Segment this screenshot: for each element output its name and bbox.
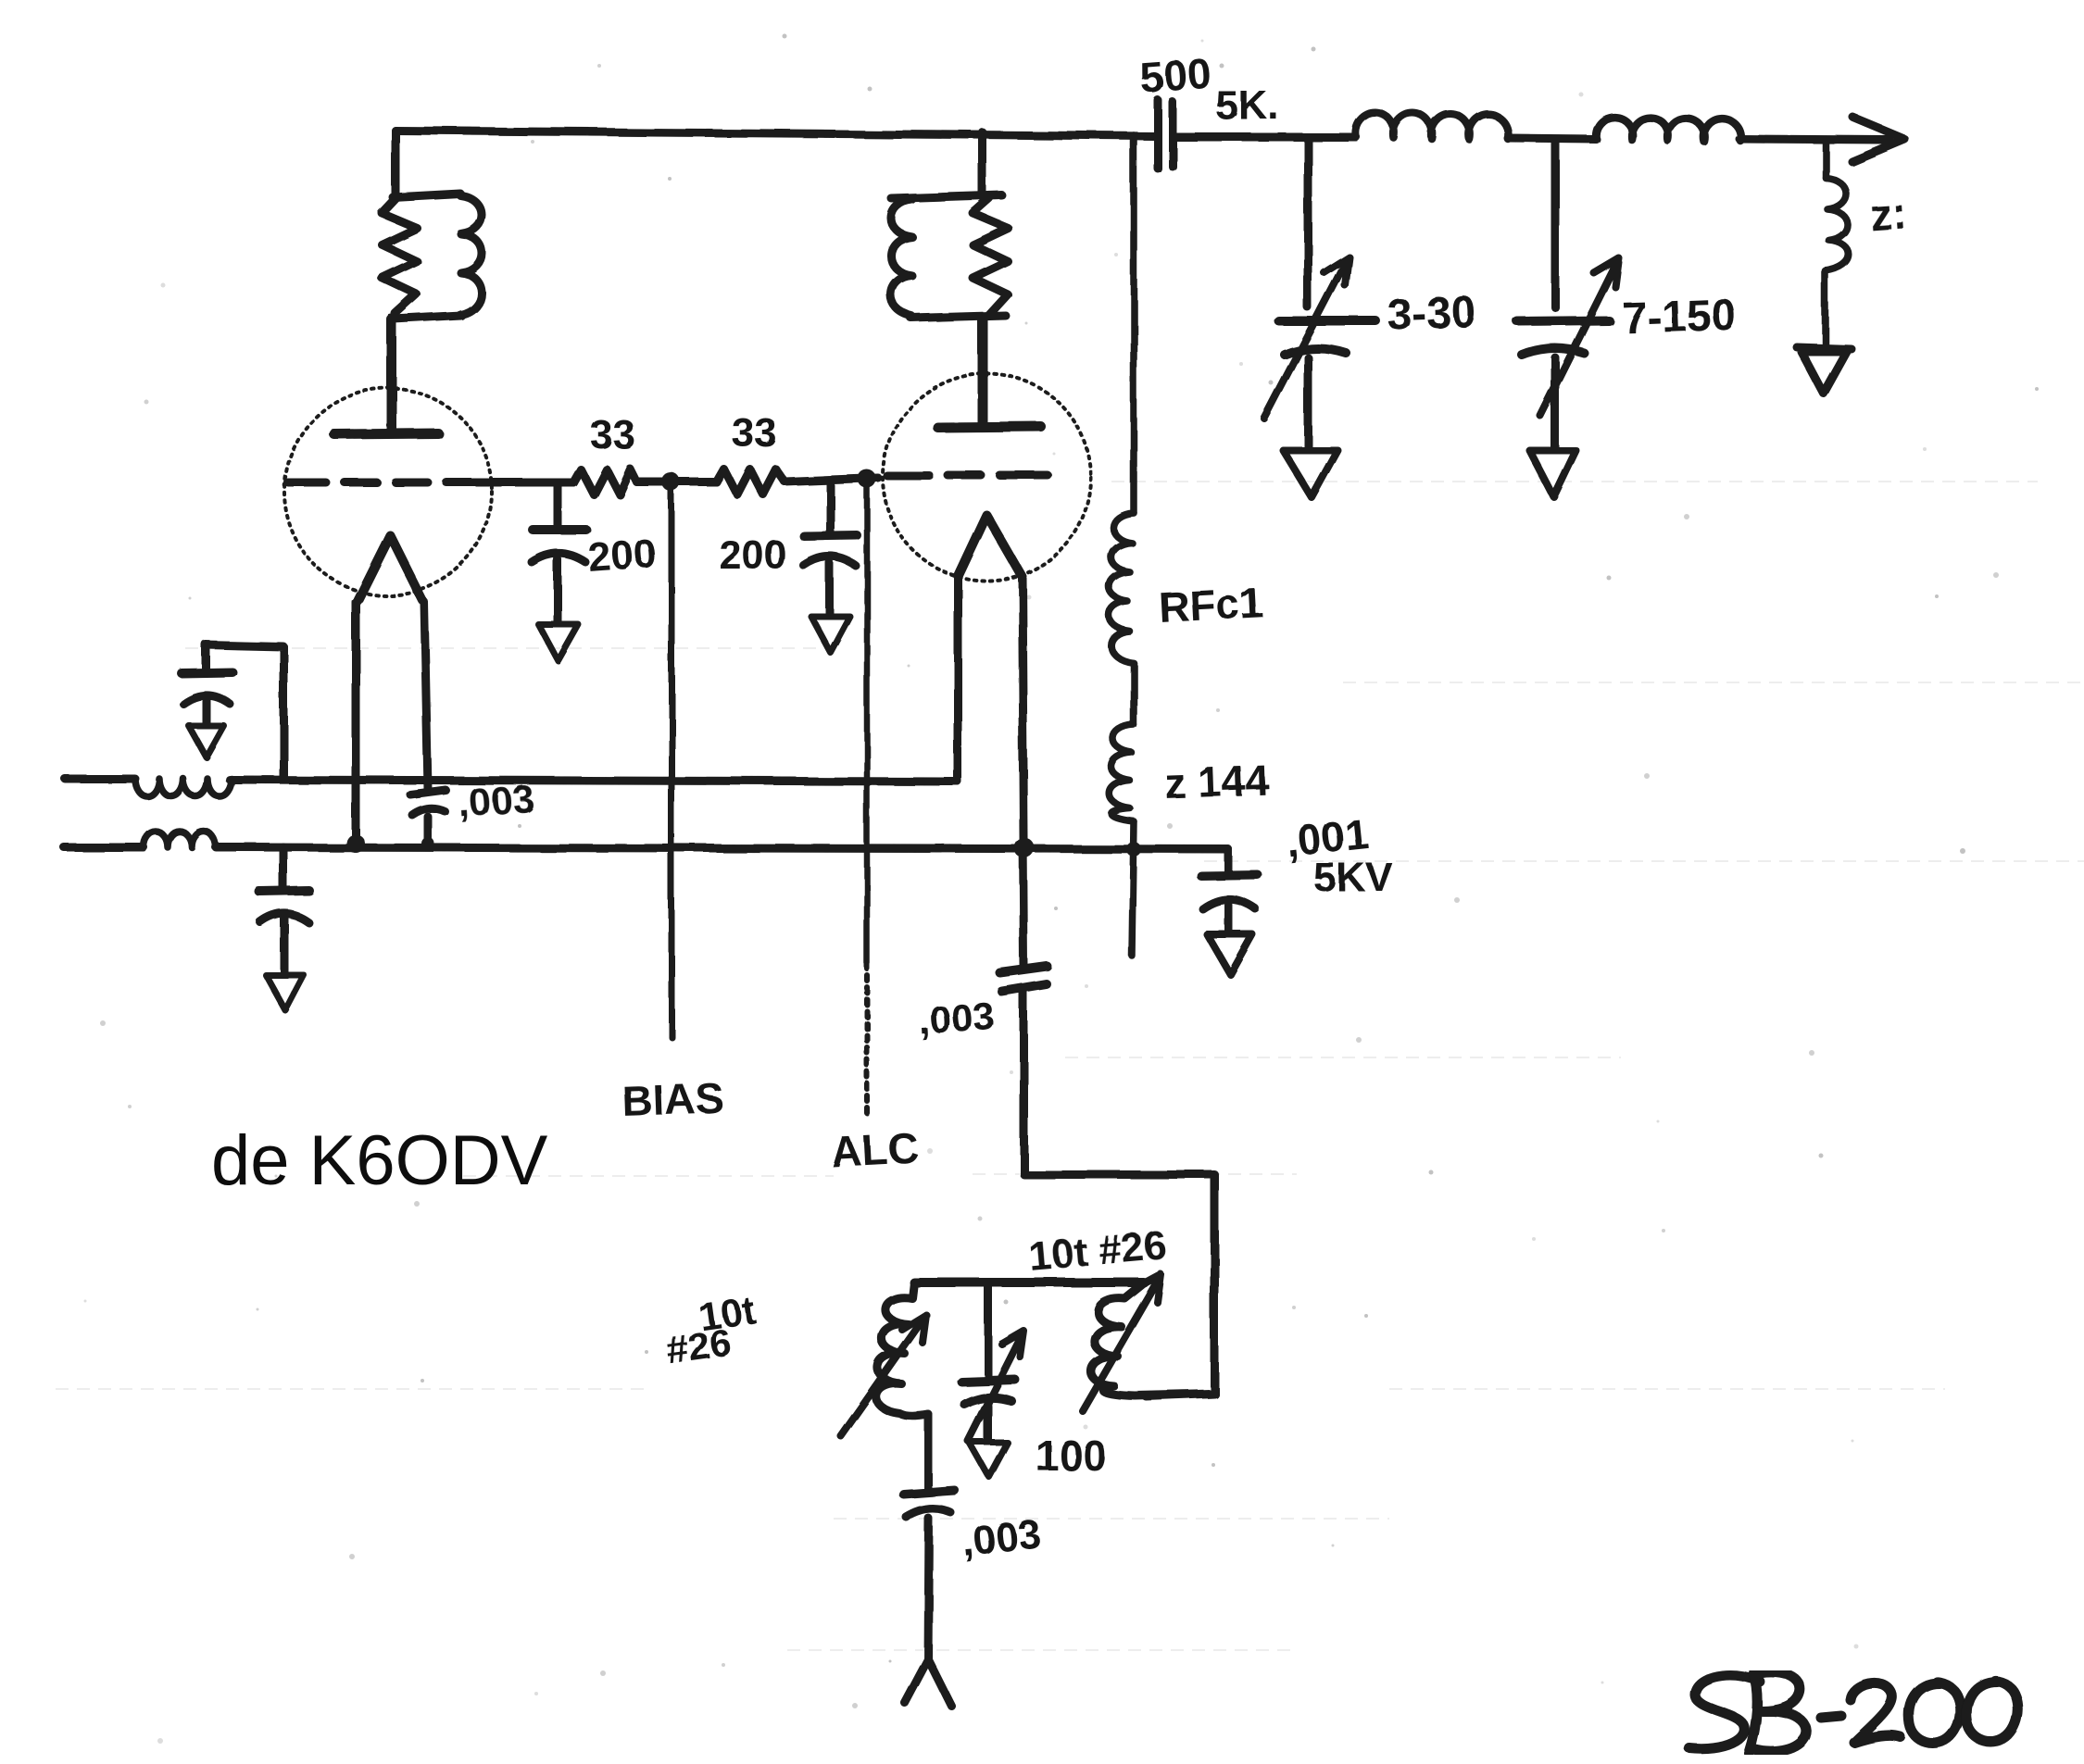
- svg-text:RFc1: RFc1: [1158, 578, 1264, 632]
- capacitor 200 (right) top plate: [804, 535, 857, 536]
- capacitor 200 (right) lead: [826, 482, 835, 533]
- coupling capacitor 500 right plate: [1169, 102, 1177, 167]
- node junction left leg on lower filament line: [346, 834, 365, 853]
- svg-text:500: 500: [1138, 49, 1212, 102]
- tube V2 cathode: [958, 515, 1022, 576]
- wire from .003 down and jog to input tank: [1023, 991, 1214, 1396]
- wire left coil to .003 capacitor: [924, 1414, 933, 1491]
- svg-text:5K.: 5K.: [1215, 82, 1278, 128]
- resistor 33 (second): [717, 469, 785, 494]
- ground below .001 capacitor: [1207, 934, 1252, 974]
- variable capacitor 7-150 lead to ground: [1551, 357, 1560, 448]
- variable capacitor 100 lead: [985, 1407, 993, 1441]
- node junction RFC on lower line: [1126, 842, 1141, 857]
- capacitor lower-left top plate: [259, 891, 309, 892]
- wire tube V1 left filament leg: [352, 602, 360, 844]
- wire tube V1 right filament leg: [424, 602, 428, 789]
- label SB-200: [1689, 1672, 2018, 1753]
- input tank top bar: [914, 1278, 1144, 1287]
- wire filament lower line: [64, 847, 1228, 849]
- variable capacitor 3-30 arrow: [1264, 256, 1349, 419]
- tank inductor L1: [1356, 113, 1509, 140]
- wire tube V2 right filament leg: [1022, 576, 1024, 967]
- wire riser from upper filament line to bypass cap: [206, 644, 283, 779]
- coupling capacitor 500 left plate: [1154, 100, 1162, 169]
- svg-text:#26: #26: [664, 1320, 734, 1372]
- parasitic suppressor Z1 top bar: [393, 194, 460, 197]
- variable capacitor 7-150 top plate: [1517, 320, 1609, 321]
- variable capacitor 3-30 bottom plate: [1285, 348, 1346, 355]
- RFC middle lead: [1130, 663, 1137, 725]
- variable capacitor 100 bottom plate: [965, 1397, 1011, 1405]
- capacitor lower-left bottom plate: [260, 914, 308, 923]
- ground below capacitor 200 (left): [538, 624, 578, 660]
- node ALC junction: [858, 469, 876, 488]
- wire top line right of coupling cap: [1176, 137, 1889, 140]
- wire top plate line: [395, 131, 1154, 136]
- resistor of suppressor Z1 (zigzag): [382, 198, 417, 314]
- variable capacitor 3-30 top plate: [1279, 317, 1376, 326]
- capacitor .003 input bottom plate: [907, 1509, 951, 1518]
- wire vertical top line to suppressor Z2: [979, 132, 987, 196]
- svg-text:33: 33: [732, 410, 777, 456]
- wire suppressor Z1 to tube V1 plate: [387, 319, 397, 432]
- arrowhead output of top line: [1852, 118, 1904, 161]
- wire grid V1 to resistor: [492, 479, 573, 487]
- suppressor Z2 bottom bar: [911, 316, 1006, 319]
- wire between 33 resistors: [637, 479, 717, 487]
- variable capacitor 100 arrow: [969, 1332, 1024, 1442]
- resistor of suppressor Z2 (zigzag): [973, 198, 1008, 315]
- inductor of suppressor Z2 (loops): [891, 200, 912, 317]
- svg-text:33: 33: [590, 412, 635, 457]
- arrow through right input coil: [1082, 1274, 1161, 1410]
- capacitor 200 (right) lead to ground: [826, 563, 835, 615]
- tube V2 envelope (dotted circle): [883, 373, 1090, 581]
- choke in lower filament line: [144, 832, 216, 847]
- Z144 winding: [1110, 725, 1134, 821]
- input coil left 10t: [876, 1282, 928, 1416]
- arrow through left input coil: [841, 1315, 926, 1436]
- tube V1 cathode: [358, 535, 422, 600]
- capacitor .003 to ALC network plates: [1000, 967, 1048, 992]
- svg-text:z 144: z 144: [1164, 756, 1271, 807]
- output choke lower lead: [1822, 271, 1829, 344]
- resistor 33 (first): [573, 469, 637, 494]
- svg-text:z:: z:: [1868, 189, 1909, 241]
- capacitor 200 (left) lead: [554, 482, 562, 527]
- wire right coil bottom to riser: [1135, 1394, 1214, 1395]
- RFC1 winding: [1110, 513, 1134, 663]
- variable capacitor 7-150 arrow: [1540, 258, 1619, 416]
- RFC lower lead: [1132, 821, 1134, 956]
- RF input arrow: [905, 1659, 951, 1706]
- wire down to variable capacitor 7-150: [1551, 139, 1560, 307]
- input coil right 10t: [1090, 1282, 1144, 1395]
- suppressor Z1 bottom bar: [394, 316, 461, 319]
- tube V1 grid (dashed): [288, 479, 489, 487]
- choke in upper filament line: [135, 779, 232, 796]
- svg-text:7-150: 7-150: [1622, 291, 1738, 344]
- output choke Z winding: [1826, 178, 1849, 271]
- node junction tube V2 right leg on lower line: [1014, 838, 1035, 858]
- variable capacitor 100 top plate: [961, 1380, 1015, 1382]
- ground below capacitor 100: [970, 1443, 1008, 1477]
- capacitor .003 filament bypass plates: [410, 790, 446, 815]
- wire suppressor Z2 to tube V2 plate: [978, 319, 988, 427]
- bypass capacitor top-left top plate: [182, 672, 232, 673]
- wire ALC line: [864, 480, 871, 963]
- capacitor .001 5KV lead from lower line: [1224, 849, 1233, 872]
- capacitor .001 5KV top plate: [1201, 875, 1258, 876]
- inductor of suppressor Z1 (loops): [460, 195, 482, 315]
- svg-text:,003: ,003: [960, 1511, 1043, 1565]
- capacitor 200 (left) top plate: [533, 525, 586, 534]
- wire vertical from top line to suppressor Z1: [392, 131, 400, 194]
- RFC plate choke upper lead: [1130, 135, 1137, 513]
- capacitor 200 (left) bottom plate: [532, 554, 585, 563]
- tube V1 plate bar: [334, 433, 438, 434]
- wire top bar to variable capacitor 100: [985, 1282, 993, 1378]
- wire down to variable capacitor 3-30: [1304, 137, 1312, 307]
- ground below output choke: [1797, 347, 1852, 394]
- capacitor .001 5KV lead to ground: [1225, 906, 1234, 932]
- wire filament upper line: [65, 779, 958, 782]
- svg-text:de K6ODV: de K6ODV: [211, 1121, 548, 1200]
- ground below 3-30: [1283, 450, 1337, 497]
- capacitor lower-left lead: [280, 847, 288, 889]
- variable capacitor 7-150 bottom plate: [1522, 348, 1584, 355]
- svg-text:5KV: 5KV: [1313, 855, 1393, 900]
- tube V2 plate bar: [938, 427, 1041, 428]
- wire tube V2 left filament leg: [954, 576, 962, 782]
- svg-text:100: 100: [1036, 1432, 1107, 1480]
- bypass capacitor top-left lead: [203, 700, 211, 724]
- capacitor lower-left lead to ground: [281, 919, 289, 973]
- suppressor Z2 top bar: [892, 195, 1002, 199]
- svg-text:,003: ,003: [917, 994, 996, 1043]
- capacitor 200 (left) lead to ground: [554, 559, 562, 622]
- wire .003 to RF input: [928, 1519, 929, 1664]
- variable capacitor 3-30 lead to ground: [1304, 357, 1312, 448]
- capacitor .003 filament lead: [424, 817, 433, 844]
- capacitor .003 input top plate: [904, 1491, 955, 1495]
- bypass capacitor top-left bottom plate: [183, 695, 230, 704]
- svg-text:,003: ,003: [457, 776, 535, 825]
- tube V2 grid (dashed): [887, 472, 1048, 481]
- ground below 7-150: [1530, 451, 1576, 497]
- ground below lower-left capacitor: [266, 975, 304, 1010]
- tank inductor L2: [1596, 117, 1741, 142]
- ground below top-left capacitor: [189, 726, 224, 757]
- capacitor 200 (right) bottom plate: [804, 557, 856, 567]
- ground below capacitor 200 (right): [811, 617, 850, 653]
- wire resistor to grid V2: [785, 478, 878, 482]
- svg-text:ALC: ALC: [830, 1123, 920, 1176]
- wire BIAS line: [669, 482, 675, 1037]
- svg-text:200: 200: [719, 532, 786, 578]
- node BIAS junction: [662, 473, 681, 492]
- svg-text:200: 200: [586, 531, 658, 581]
- svg-text:3-30: 3-30: [1387, 288, 1477, 340]
- svg-text:BIAS: BIAS: [621, 1073, 725, 1125]
- wire down to output choke: [1822, 141, 1829, 178]
- capacitor .001 5KV bottom plate: [1203, 900, 1256, 909]
- node junction .003 on lower line: [421, 837, 434, 850]
- tube V1 envelope (dotted circle): [284, 388, 492, 595]
